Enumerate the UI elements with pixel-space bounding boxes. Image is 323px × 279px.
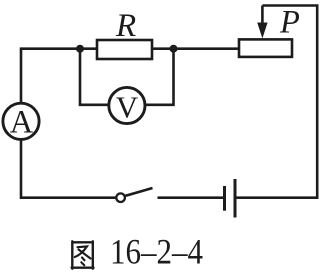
svg-text:16–2–4: 16–2–4 bbox=[110, 232, 203, 272]
resistor R (rectangle body) bbox=[97, 40, 152, 59]
ammeter A (meter circle) bbox=[3, 103, 39, 139]
svg-text:P: P bbox=[279, 4, 300, 40]
wire: left rail, ammeter top to resistor left (top-left corner) bbox=[21, 49, 97, 103]
node: junction right (resistor / voltmeter branch) bbox=[170, 45, 178, 53]
battery negative plate (short) bbox=[223, 186, 226, 211]
voltmeter V (meter circle) bbox=[109, 87, 145, 123]
svg-text:R: R bbox=[115, 8, 136, 44]
wire: ammeter bottom to switch pivot (bottom-left corner) bbox=[21, 140, 116, 198]
caption: Chinese character 图 (tu, "figure"), drawn as strokes bbox=[72, 241, 94, 268]
wire: battery positive plate to rheostat wiper (right rail, top-right and bottom-right corners) bbox=[237, 6, 318, 198]
rheostat P wiper arrowhead bbox=[257, 23, 267, 39]
rheostat P wiper arrow shaft bbox=[261, 6, 264, 27]
node: junction left (resistor / voltmeter branch) bbox=[76, 45, 84, 53]
svg-text:A: A bbox=[10, 105, 34, 141]
svg-text:V: V bbox=[116, 90, 139, 125]
battery positive plate (long) bbox=[234, 179, 237, 218]
switch S (pivot circle, open) bbox=[116, 193, 125, 202]
switch S blade (open, tilted up) bbox=[125, 188, 152, 196]
wire: switch fixed contact to battery negative plate bbox=[158, 196, 224, 199]
wire: resistor right terminal to rheostat left terminal bbox=[152, 47, 240, 50]
wire: left junction down to voltmeter left terminal bbox=[80, 49, 108, 105]
rheostat P (rectangle body) bbox=[239, 39, 292, 57]
wire: voltmeter right terminal up to right junction bbox=[146, 49, 174, 105]
